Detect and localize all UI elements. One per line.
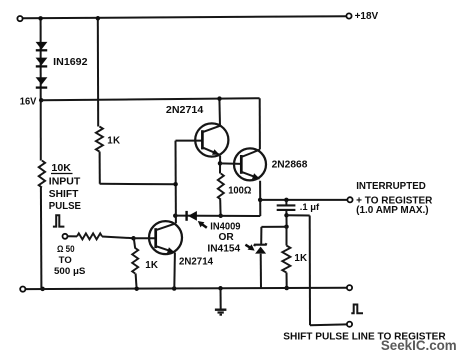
svg-text:1K: 1K	[294, 253, 307, 264]
svg-text:Ω 50: Ω 50	[57, 244, 75, 255]
svg-text:+18V: +18V	[355, 11, 379, 22]
svg-text:2N2714: 2N2714	[166, 105, 204, 116]
svg-text:INPUT: INPUT	[49, 176, 81, 187]
svg-text:16V: 16V	[20, 97, 37, 108]
svg-text:2N2868: 2N2868	[272, 160, 308, 171]
svg-text:SHIFT: SHIFT	[49, 189, 79, 200]
svg-text:OR: OR	[219, 232, 234, 243]
svg-text:1K: 1K	[107, 135, 120, 146]
svg-text:(1.0 AMP MAX.): (1.0 AMP MAX.)	[356, 205, 428, 216]
svg-text:INTERRUPTED: INTERRUPTED	[356, 181, 426, 192]
svg-text:100Ω: 100Ω	[228, 185, 251, 196]
svg-text:.1 μf: .1 μf	[300, 202, 320, 212]
svg-text:2N2714: 2N2714	[179, 256, 214, 267]
svg-text:IN1692: IN1692	[53, 57, 88, 68]
svg-text:PULSE: PULSE	[49, 201, 82, 212]
svg-text:IN4009: IN4009	[210, 222, 241, 233]
svg-text:1K: 1K	[145, 260, 158, 271]
svg-text:10K: 10K	[51, 163, 71, 174]
svg-text:SeekIC.com: SeekIC.com	[381, 338, 457, 353]
svg-text:IN4154: IN4154	[207, 243, 240, 254]
svg-text:TO: TO	[59, 255, 72, 266]
svg-text:500 μS: 500 μS	[54, 266, 85, 277]
